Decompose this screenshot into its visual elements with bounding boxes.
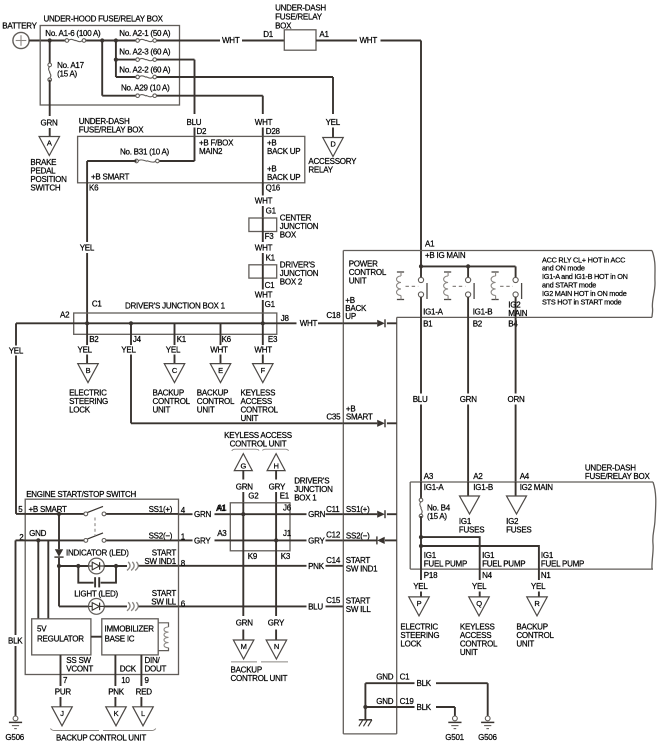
svg-text:5V: 5V — [37, 625, 47, 634]
switch SS2 — [84, 533, 106, 542]
resistor IND1 — [127, 562, 138, 571]
battery — [2, 22, 37, 49]
svg-text:YEL: YEL — [531, 582, 546, 591]
connector B (electric steering lock) — [69, 364, 108, 415]
svg-text:K1: K1 — [266, 254, 276, 263]
svg-text:K3: K3 — [281, 552, 291, 561]
svg-text:C11: C11 — [326, 505, 340, 514]
svg-text:GND: GND — [376, 673, 394, 682]
node fuel pump 2 — [419, 544, 423, 548]
wire resistor to pin6 — [139, 605, 179, 607]
svg-text:YEL: YEL — [166, 346, 181, 355]
svg-text:SMART: SMART — [346, 413, 373, 422]
svg-text:Q: Q — [476, 599, 482, 608]
svg-text:ORN: ORN — [508, 395, 526, 404]
wire light led to resistor — [104, 605, 127, 607]
connector E (backup control unit) — [197, 364, 235, 415]
wire battery to under-hood box — [29, 40, 50, 42]
svg-text:GRY: GRY — [269, 483, 286, 492]
connector IG2 FUSES — [506, 496, 531, 535]
wire GRN to brake switch — [41, 105, 59, 137]
pin labels box1 bottom — [89, 335, 278, 344]
node bus relay1 — [419, 264, 423, 268]
svg-text:SS1(+): SS1(+) — [346, 505, 370, 514]
fuse No.B4 (15 A) — [419, 482, 451, 521]
node GND branch1 — [36, 538, 40, 542]
svg-text:A1: A1 — [425, 240, 435, 249]
svg-text:GRN: GRN — [194, 510, 212, 519]
wire branch x115.9 — [115, 41, 117, 78]
svg-text:PUR: PUR — [55, 687, 72, 696]
wire K6 to driver's junction box 1 (YEL) — [80, 183, 103, 323]
fuse No.A2-2 (60 A) — [119, 65, 171, 78]
svg-text:WHT: WHT — [222, 36, 240, 45]
wire BLU to D2 — [187, 60, 208, 137]
wire led to resistor — [104, 565, 127, 567]
node box1-G1 — [261, 321, 265, 325]
svg-text:IG1-B: IG1-B — [473, 307, 493, 316]
wire row A29 — [102, 95, 263, 97]
svg-text:PNK: PNK — [308, 562, 325, 571]
wire DCK — [108, 655, 137, 707]
svg-text:D: D — [330, 140, 336, 149]
node bus-A29 — [100, 38, 104, 42]
wire gnd internal — [364, 683, 366, 720]
svg-text:No. A29 (10 A): No. A29 (10 A) — [121, 84, 170, 93]
svg-text:WHT: WHT — [255, 291, 273, 300]
svg-text:YEL: YEL — [326, 118, 341, 127]
row pin2 SS2 — [19, 529, 186, 542]
switch SS1 — [84, 506, 106, 515]
svg-text:E3: E3 — [268, 335, 278, 344]
svg-text:E: E — [218, 366, 223, 375]
svg-text:UNIT: UNIT — [153, 406, 171, 415]
diode +B SMART (C35) — [326, 404, 396, 427]
5V regulator box — [32, 619, 91, 655]
node A2-3 tap — [114, 58, 118, 62]
fuse No.A1-6 (100 A) — [45, 29, 101, 42]
svg-text:YEL: YEL — [9, 347, 24, 356]
wire GND drop1 — [37, 540, 39, 618]
connector Q (keyless access control unit) — [460, 597, 498, 657]
wire GND C19 BLK — [365, 703, 455, 716]
svg-text:YEL: YEL — [472, 582, 487, 591]
svg-text:(15 A): (15 A) — [427, 512, 447, 521]
wire YEL to accessory relay — [326, 77, 341, 138]
label brake pedal position switch — [30, 158, 67, 193]
svg-text:N4: N4 — [482, 571, 493, 580]
svg-text:J8: J8 — [281, 314, 290, 323]
wire SS1 row GRN — [179, 504, 344, 519]
ground G506 (left) — [5, 716, 24, 742]
relay IG1 (2) — [444, 266, 475, 317]
svg-text:G2: G2 — [248, 492, 259, 501]
svg-text:J6: J6 — [283, 504, 292, 513]
svg-text:N: N — [274, 642, 279, 651]
svg-text:SW IND1: SW IND1 — [346, 565, 378, 574]
svg-text:BLU: BLU — [308, 602, 323, 611]
svg-text:SWITCH: SWITCH — [30, 184, 61, 193]
svg-text:G1: G1 — [266, 207, 277, 216]
wire +B SMART feed — [9, 323, 26, 514]
wire G to G2 (GRN) — [236, 471, 259, 503]
svg-text:G501: G501 — [445, 733, 464, 742]
label IG1-B col — [473, 483, 493, 492]
svg-text:YEL: YEL — [121, 346, 136, 355]
svg-text:FUSE/RELAY BOX: FUSE/RELAY BOX — [585, 472, 651, 481]
wire to light LED — [59, 566, 89, 606]
svg-text:A4: A4 — [520, 472, 530, 481]
svg-text:(15 A): (15 A) — [57, 70, 77, 79]
wire A4 stub — [515, 482, 517, 496]
svg-text:FUEL PUMP: FUEL PUMP — [541, 559, 584, 568]
svg-text:A1: A1 — [319, 30, 329, 39]
wire ILL row BLU — [179, 596, 344, 611]
connector A (brake pedal position switch) — [39, 137, 60, 156]
svg-text:B2: B2 — [89, 335, 99, 344]
wire relay A1 to +B IG MAIN — [316, 36, 421, 266]
connector M (backup control unit) — [233, 640, 254, 659]
wire K6 to backup control unit (WHT) — [210, 346, 228, 364]
svg-text:BOX 2: BOX 2 — [280, 278, 303, 287]
node box1-J4 — [129, 321, 133, 325]
svg-text:GRY: GRY — [268, 619, 285, 628]
wire to N4 — [421, 537, 480, 569]
svg-text:RELAY: RELAY — [308, 166, 333, 175]
fuse No.A2-1 (50 A) — [119, 29, 171, 42]
svg-text:SS2(−): SS2(−) — [346, 531, 370, 540]
relay IG2 (3) — [491, 266, 521, 317]
node G2 row — [241, 512, 245, 516]
svg-text:SS2(−): SS2(−) — [149, 531, 173, 540]
svg-text:CONTROL UNIT: CONTROL UNIT — [231, 674, 288, 683]
svg-text:FUSES: FUSES — [506, 526, 531, 535]
svg-text:DCK: DCK — [120, 664, 137, 673]
svg-text:G506: G506 — [478, 733, 497, 742]
svg-text:10: 10 — [121, 676, 130, 685]
svg-text:D28: D28 — [266, 127, 281, 136]
wire D2 to fuse B31 — [157, 136, 194, 161]
connector F (keyless access control unit) — [241, 364, 279, 423]
svg-text:YEL: YEL — [80, 244, 95, 253]
wire regulator-immobilizer — [91, 636, 102, 638]
svg-text:A2: A2 — [60, 311, 70, 320]
chassis ground (PCU) — [359, 720, 372, 727]
connector C (backup control unit) — [153, 364, 191, 415]
svg-text:K6: K6 — [222, 335, 232, 344]
wire K6 drop — [220, 323, 222, 345]
connector D (accessory relay) — [308, 138, 357, 175]
svg-text:BASE IC: BASE IC — [105, 635, 135, 644]
wire branch x102.2 — [101, 41, 103, 96]
svg-text:GRN: GRN — [236, 619, 254, 628]
svg-text:WHT: WHT — [300, 319, 318, 328]
wire GND C1 BLK — [365, 679, 487, 716]
svg-text:B1: B1 — [423, 319, 433, 328]
ground G506 (right) — [478, 716, 497, 742]
svg-text:ENGINE START/STOP SWITCH: ENGINE START/STOP SWITCH — [26, 490, 136, 499]
wire row A2-3 — [116, 59, 195, 61]
node led row b — [76, 564, 80, 568]
connector L (backup control unit) — [133, 707, 154, 726]
svg-text:DRIVER'S JUNCTION BOX 1: DRIVER'S JUNCTION BOX 1 — [125, 302, 226, 311]
node led row c — [114, 564, 118, 568]
svg-text:GRN: GRN — [460, 395, 478, 404]
node fuel pump 1 — [419, 535, 423, 539]
svg-text:WHT: WHT — [210, 346, 228, 355]
svg-text:C18: C18 — [326, 311, 341, 320]
svg-text:GRN: GRN — [236, 483, 254, 492]
wire J4 down (YEL) — [121, 323, 136, 423]
label indicator LED — [66, 548, 129, 557]
svg-text:P18: P18 — [424, 571, 438, 580]
svg-text:IMMOBILIZER: IMMOBILIZER — [105, 625, 155, 634]
stub START SW IND1 (C14) — [346, 556, 378, 574]
svg-text:B4: B4 — [508, 319, 518, 328]
svg-text:BLU: BLU — [187, 118, 202, 127]
diode +B BACK UP (C18) — [343, 296, 396, 327]
light LED symbol — [89, 599, 105, 615]
capacitor bracket under indicator — [78, 566, 116, 587]
label IG1-A (fuse col) — [424, 483, 445, 492]
label GND C19 — [376, 697, 414, 706]
svg-text:K9: K9 — [248, 552, 258, 561]
svg-text:FUSE/RELAY BOX: FUSE/RELAY BOX — [79, 126, 145, 135]
svg-text:UNIT: UNIT — [460, 648, 478, 657]
svg-text:CONTROL UNIT: CONTROL UNIT — [230, 440, 287, 449]
svg-text:E1: E1 — [280, 492, 290, 501]
label START SW ILL — [151, 589, 185, 609]
wire K1 drop — [174, 323, 176, 345]
wire H to E1 (GRY) — [269, 471, 290, 503]
wire J4 to C35 (+B SMART row) — [131, 422, 343, 424]
wire N4 YEL — [472, 569, 493, 597]
connector IG1 FUSES — [459, 496, 484, 535]
svg-text:C19: C19 — [400, 697, 415, 706]
svg-text:BOX 1: BOX 1 — [294, 494, 317, 503]
svg-text:IG1-B: IG1-B — [473, 483, 493, 492]
wire E1-K3 vertical — [275, 503, 277, 551]
under-dash fuse/relay box (left) — [78, 117, 305, 183]
svg-text:FUSE/RELAY: FUSE/RELAY — [275, 13, 323, 22]
svg-text:R: R — [534, 599, 540, 608]
wire P18 YEL — [413, 569, 438, 597]
engine start/stop switch box — [25, 490, 178, 675]
fuse No.A29 (10 A) — [121, 84, 170, 98]
svg-text:J1: J1 — [283, 529, 292, 538]
svg-text:STS HOT in START mode: STS HOT in START mode — [542, 297, 622, 306]
svg-text:C12: C12 — [326, 531, 341, 540]
svg-text:UP: UP — [345, 312, 356, 321]
center junction box — [249, 214, 319, 242]
node box1-B2 — [85, 321, 89, 325]
connector N (backup control unit) — [266, 640, 287, 659]
svg-text:L: L — [141, 709, 145, 718]
svg-text:INDICATOR (LED): INDICATOR (LED) — [66, 548, 129, 557]
node +B smart branch — [57, 512, 61, 516]
svg-text:WHT: WHT — [254, 346, 272, 355]
svg-text:C15: C15 — [326, 596, 341, 605]
diode engine (indicator feed) — [54, 514, 63, 566]
svg-text:M: M — [241, 642, 247, 651]
svg-text:DOUT: DOUT — [145, 664, 167, 673]
wire led row — [59, 565, 89, 567]
wire SS2 row GRY — [179, 531, 344, 546]
ground G501 — [445, 716, 464, 742]
bracket backup control unit (bottom-left) — [50, 729, 155, 743]
connector H (up) — [267, 454, 285, 471]
svg-text:C: C — [172, 366, 178, 375]
svg-text:No. A2-3 (60 A): No. A2-3 (60 A) — [119, 47, 171, 56]
svg-text:F3: F3 — [265, 232, 275, 241]
svg-text:UNDER-DASH: UNDER-DASH — [275, 4, 326, 13]
connector P (electric steering lock) — [400, 597, 439, 649]
wire B4 ORN — [508, 317, 530, 482]
node E1 row — [274, 538, 278, 542]
wire resistor to pin8 — [139, 565, 179, 567]
svg-text:P: P — [417, 599, 422, 608]
wire Q16 to G1 (WHT) — [255, 183, 277, 218]
svg-text:F: F — [261, 366, 266, 375]
wire K3 to N (GRY) — [268, 551, 285, 640]
svg-text:B2: B2 — [473, 319, 483, 328]
wire K1 to backup control unit (YEL) — [166, 346, 181, 364]
svg-text:+B SMART: +B SMART — [29, 505, 67, 514]
svg-text:SW IND1: SW IND1 — [144, 557, 176, 566]
svg-text:YEL: YEL — [78, 346, 93, 355]
svg-text:H: H — [274, 461, 279, 470]
svg-text:GRN: GRN — [308, 510, 326, 519]
svg-text:VCONT: VCONT — [66, 664, 93, 673]
svg-text:MAIN: MAIN — [508, 309, 527, 318]
relay ACC (1) — [397, 266, 428, 317]
labels IG1 FUEL PUMP — [424, 551, 584, 569]
svg-text:WHT: WHT — [255, 118, 273, 127]
row pin5 SS1 — [25, 505, 186, 515]
label A1 +B IG MAIN — [425, 240, 466, 260]
svg-text:A2: A2 — [473, 472, 483, 481]
svg-text:No. B31 (10 A): No. B31 (10 A) — [120, 148, 170, 157]
svg-text:BLK: BLK — [417, 703, 432, 712]
immobilizer antenna coil — [158, 623, 168, 651]
svg-text:YEL: YEL — [413, 582, 428, 591]
svg-text:UNIT: UNIT — [349, 277, 367, 286]
svg-text:WHT: WHT — [255, 197, 273, 206]
stub START SW ILL (C15) — [346, 597, 372, 615]
svg-text:GRN: GRN — [41, 119, 59, 128]
svg-text:FUSES: FUSES — [459, 526, 484, 535]
diode SS1 (C11) — [343, 505, 396, 518]
label +B F/BOX MAIN2 — [199, 139, 234, 157]
svg-text:BLK: BLK — [417, 679, 432, 688]
svg-text:Q16: Q16 — [266, 184, 281, 193]
svg-text:GRY: GRY — [194, 536, 211, 545]
under-dash fuse/relay box (bottom) — [410, 464, 656, 570]
wire SS SW VCONT — [55, 655, 94, 707]
svg-text:C1: C1 — [265, 281, 276, 290]
svg-text:K: K — [114, 709, 119, 718]
under-hood fuse/relay box — [40, 15, 179, 106]
node gnd join — [363, 705, 367, 709]
bracket backup control unit (middle) — [231, 662, 289, 683]
svg-text:D1: D1 — [263, 30, 274, 39]
svg-text:WHT: WHT — [360, 36, 378, 45]
svg-text:UNIT: UNIT — [197, 406, 215, 415]
svg-text:K1: K1 — [177, 335, 187, 344]
svg-text:LOCK: LOCK — [69, 406, 91, 415]
wire B2 to electric steering lock (YEL) — [78, 323, 93, 363]
node led row a — [57, 564, 61, 568]
wire pin2 to G506 — [8, 540, 25, 716]
svg-text:PNK: PNK — [108, 687, 125, 696]
label driver's junction box 1 (middle) — [294, 477, 333, 503]
svg-text:A3: A3 — [217, 529, 227, 538]
svg-text:No. A2-1 (50 A): No. A2-1 (50 A) — [119, 29, 171, 38]
svg-text:WHT: WHT — [255, 244, 273, 253]
svg-text:BACKUP CONTROL UNIT: BACKUP CONTROL UNIT — [56, 734, 146, 743]
svg-text:SW ILL: SW ILL — [346, 605, 372, 614]
connector G (up) — [234, 454, 252, 471]
relay IG1-B label — [473, 307, 493, 328]
wire row A2-2 — [116, 76, 333, 78]
svg-text:G: G — [241, 461, 247, 470]
svg-text:SS1(+): SS1(+) — [149, 505, 173, 514]
immobilizer base IC box — [102, 619, 158, 655]
wire C1 to G1 (WHT) — [255, 278, 276, 323]
connector J (backup control unit) — [52, 707, 73, 726]
svg-text:K6: K6 — [89, 184, 99, 193]
wire GND drop2 — [47, 540, 49, 618]
diode SS2 (C12) — [343, 531, 396, 544]
node bus-A23 — [114, 38, 118, 42]
svg-text:C1: C1 — [400, 673, 411, 682]
svg-text:BACK UP: BACK UP — [267, 173, 300, 182]
indicator LED symbol — [89, 558, 105, 574]
under-dash fuse/relay box (top) with relay D1-A1 — [263, 4, 329, 51]
resistor ILL — [127, 602, 138, 611]
fuse No.A2-3 (60 A) — [119, 47, 171, 61]
connector R (backup control unit) — [516, 597, 554, 649]
svg-text:G1: G1 — [265, 300, 276, 309]
driver's junction box 1 — [74, 302, 290, 335]
svg-text:C1: C1 — [92, 300, 103, 309]
svg-text:BATTERY: BATTERY — [2, 22, 37, 31]
connector K (backup control unit) — [106, 707, 127, 726]
wire F3 to K1 (WHT) — [255, 232, 276, 265]
svg-text:RED: RED — [136, 687, 153, 696]
svg-text:BLK: BLK — [8, 636, 23, 645]
wire A2-1 to relay — [180, 36, 285, 45]
svg-text:N1: N1 — [541, 571, 552, 580]
node bus relay2 — [466, 264, 470, 268]
svg-text:C14: C14 — [326, 556, 341, 565]
svg-text:LIGHT (LED): LIGHT (LED) — [74, 589, 118, 598]
svg-text:IG1-A: IG1-A — [423, 307, 444, 316]
svg-text:J4: J4 — [133, 335, 142, 344]
svg-text:GND: GND — [29, 529, 46, 538]
label IG2 MAIN col — [520, 483, 554, 492]
switch link dashed — [94, 518, 96, 537]
svg-text:+B IG MAIN: +B IG MAIN — [425, 251, 466, 260]
svg-text:FUEL PUMP: FUEL PUMP — [424, 559, 467, 568]
relay IG1-A label — [423, 307, 444, 328]
svg-text:A: A — [47, 139, 52, 148]
svg-text:GRY: GRY — [308, 536, 325, 545]
pin labels keyless box — [217, 504, 292, 562]
svg-text:SW ILL: SW ILL — [151, 597, 177, 606]
wire WHT to D28 — [255, 96, 281, 137]
svg-text:IG2 MAIN: IG2 MAIN — [520, 483, 554, 492]
